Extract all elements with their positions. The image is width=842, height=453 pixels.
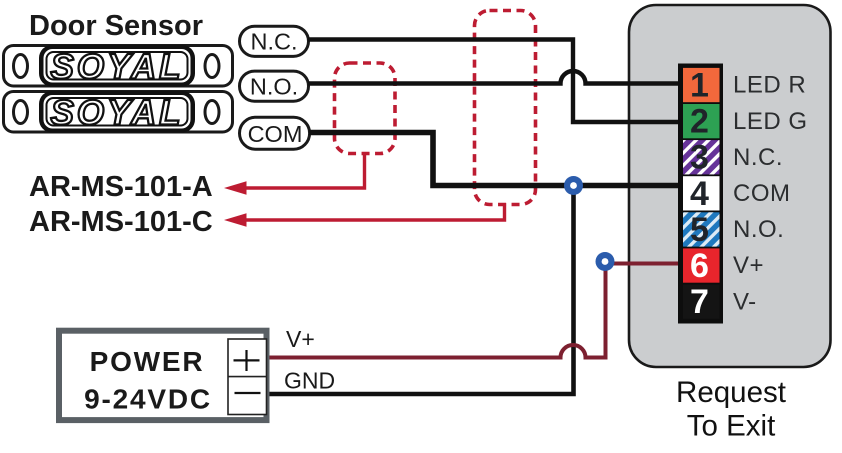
terminal 1 LED R: [683, 67, 720, 105]
door sensor bar 2: [4, 91, 233, 133]
svg-text:COM: COM: [733, 180, 791, 207]
svg-text:SOYAL: SOYAL: [51, 48, 184, 87]
svg-text:Request: Request: [676, 376, 786, 409]
svg-text:To Exit: To Exit: [687, 410, 776, 443]
svg-text:7: 7: [690, 283, 709, 321]
wire N.C. to LED G: [308, 40, 680, 123]
dashed callout box C: [475, 11, 536, 205]
leader arrow A: [224, 152, 365, 195]
dashed callout box A: [335, 63, 396, 154]
power supply box: [59, 331, 267, 420]
terminal oval N.O.: [240, 71, 309, 101]
leader arrow C: [224, 203, 505, 227]
terminal oval COM: [240, 117, 310, 149]
svg-text:N.C.: N.C.: [251, 29, 298, 55]
svg-text:LED G: LED G: [733, 108, 808, 135]
svg-text:N.O.: N.O.: [250, 73, 298, 99]
terminal 6 V+: [683, 247, 720, 285]
pin labels: [733, 72, 808, 316]
svg-text:5: 5: [690, 211, 709, 249]
wire N.O. to LED R with bridge: [308, 71, 680, 84]
terminal 5 N.O.: [683, 211, 720, 249]
svg-text:6: 6: [690, 247, 709, 285]
terminal 3 N.C.: [683, 139, 720, 177]
terminal 7 V-: [683, 283, 720, 321]
svg-text:V+: V+: [733, 252, 764, 279]
terminal strip: [678, 64, 723, 324]
label Request To Exit: [676, 376, 786, 443]
svg-text:N.O.: N.O.: [733, 216, 784, 243]
svg-text:GND: GND: [284, 368, 335, 394]
svg-text:SOYAL: SOYAL: [51, 94, 184, 133]
svg-text:COM: COM: [248, 121, 303, 147]
svg-text:1: 1: [690, 67, 709, 105]
svg-text:AR-MS-101-A: AR-MS-101-A: [29, 171, 213, 203]
wire GND: [267, 186, 574, 395]
wire COM to COM: [309, 133, 680, 186]
svg-text:9-24VDC: 9-24VDC: [84, 384, 212, 415]
svg-text:N.C.: N.C.: [733, 144, 783, 171]
junction node on V+ wire: [596, 252, 615, 271]
svg-text:V-: V-: [733, 288, 757, 315]
door sensor bar 1: [4, 45, 233, 87]
terminal oval N.C.: [240, 26, 309, 56]
terminal 2 LED G: [683, 103, 720, 141]
wire V+ maroon: [267, 264, 680, 358]
power terminal block: [228, 339, 267, 415]
svg-text:2: 2: [690, 103, 709, 141]
terminal 4 COM: [683, 175, 720, 213]
reader panel (Request To Exit device): [629, 5, 831, 367]
svg-text:3: 3: [690, 139, 709, 177]
svg-text:LED R: LED R: [733, 72, 806, 99]
svg-text:AR-MS-101-C: AR-MS-101-C: [29, 206, 213, 238]
svg-text:Door Sensor: Door Sensor: [29, 10, 203, 42]
svg-text:4: 4: [690, 175, 709, 213]
svg-text:POWER: POWER: [90, 346, 205, 377]
svg-text:V+: V+: [286, 326, 315, 352]
junction node on COM wire: [564, 176, 583, 195]
